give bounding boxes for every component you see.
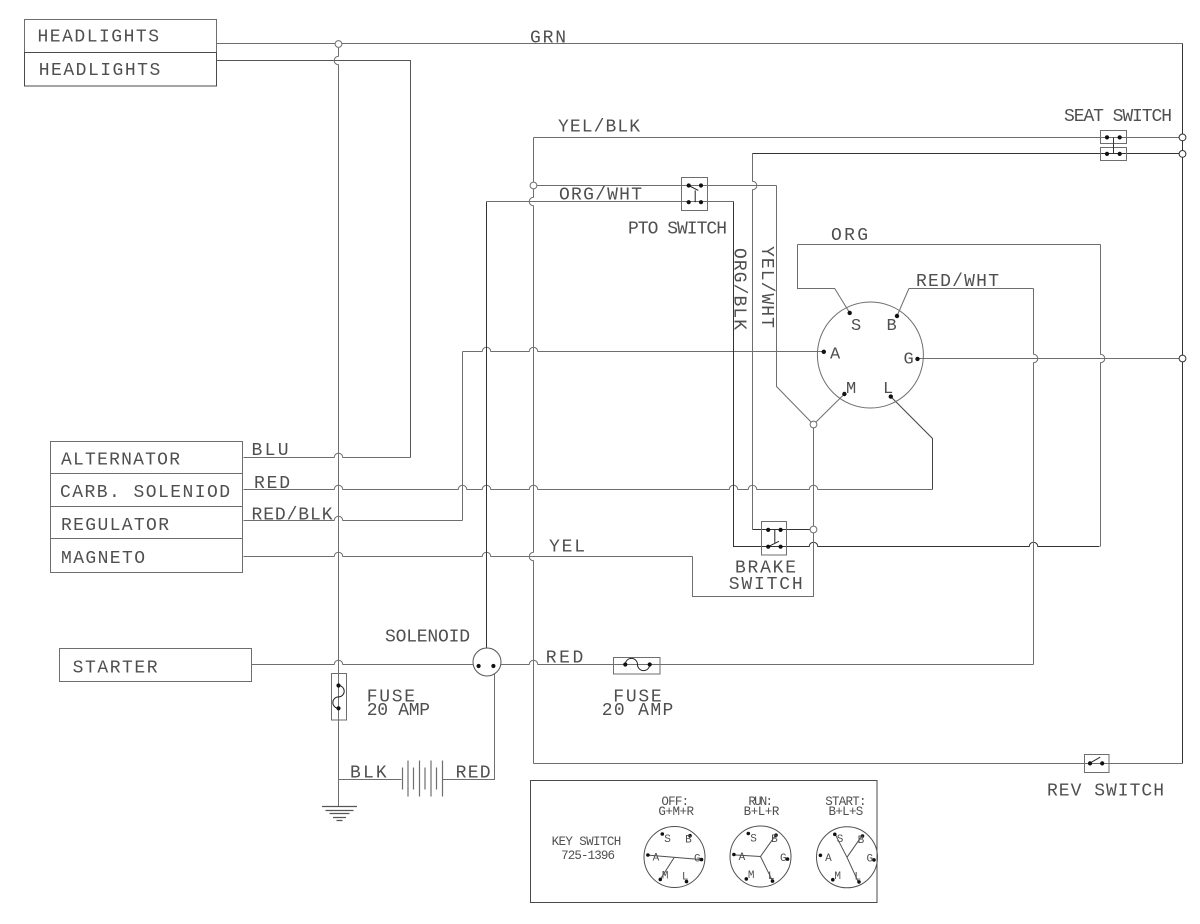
wire ORG/BLK vertical to brake bottom <box>734 202 1100 547</box>
svg-text:M: M <box>834 871 841 883</box>
box ALTERNATOR <box>51 442 243 474</box>
node ORG/WHT junction <box>530 182 537 189</box>
wire RED solenoid to fuse to x1033.5 <box>501 660 1034 664</box>
wire M terminal diagonal <box>814 394 845 425</box>
svg-text:RED: RED <box>546 649 584 669</box>
svg-text:B+L+R: B+L+R <box>744 805 780 819</box>
svg-text:S: S <box>837 834 844 846</box>
box REGULATOR <box>51 507 243 539</box>
wire YEL magneto <box>244 552 693 556</box>
svg-text:BLK: BLK <box>350 764 387 784</box>
wire BLU <box>244 453 411 457</box>
wire ORG/BLK lower <box>487 201 734 203</box>
wire RED/BLK regulator <box>244 516 463 520</box>
svg-text:L: L <box>883 380 893 399</box>
svg-text:SEAT SWITCH: SEAT SWITCH <box>1064 107 1172 127</box>
ground <box>322 807 357 821</box>
wire M junction riser to YEL return <box>693 428 814 597</box>
svg-text:20 AMP: 20 AMP <box>602 701 674 721</box>
boxes left middle <box>51 442 878 903</box>
svg-text:RED: RED <box>456 764 491 784</box>
wire brake top <box>753 529 814 531</box>
wire L terminal diagonal <box>891 397 933 490</box>
fuse F1 vertical <box>332 674 347 721</box>
wire ORG <box>798 244 1101 246</box>
svg-text:M: M <box>846 380 856 399</box>
key switch circle START <box>817 827 878 888</box>
wire RED/WHT vertical x1033.5 <box>1034 289 1038 665</box>
svg-text:PTO SWITCH: PTO SWITCH <box>628 220 727 240</box>
svg-text:L: L <box>768 871 775 883</box>
svg-text:L: L <box>682 871 689 883</box>
svg-text:HEADLIGHTS: HEADLIGHTS <box>39 61 161 81</box>
svg-text:KEY SWITCH: KEY SWITCH <box>552 835 622 849</box>
svg-text:B: B <box>685 835 692 847</box>
svg-text:A: A <box>739 852 746 864</box>
svg-text:G: G <box>867 854 874 866</box>
svg-text:MAGNETO: MAGNETO <box>61 549 145 569</box>
svg-text:L: L <box>854 872 861 884</box>
svg-text:YEL/BLK: YEL/BLK <box>558 118 640 138</box>
wire G terminal <box>918 358 1183 360</box>
wire regulator riser x462.5 <box>462 352 464 521</box>
wire rev riser x533.5 <box>529 138 533 764</box>
wire PTO feed vertical x486.5 <box>486 202 488 649</box>
solenoid <box>473 648 501 676</box>
node seat right upper <box>1179 134 1186 141</box>
node G right <box>1179 355 1186 362</box>
node M junction <box>810 421 817 428</box>
svg-text:S: S <box>851 317 861 336</box>
svg-text:YEL: YEL <box>549 538 585 558</box>
svg-text:S: S <box>750 833 757 845</box>
key switch circle OFF <box>644 827 705 888</box>
svg-text:CARB. SOLENIOD: CARB. SOLENIOD <box>60 483 230 503</box>
battery <box>403 761 443 797</box>
wire right bus vertical <box>1182 44 1184 764</box>
node seat right lower <box>1179 151 1186 158</box>
seat switch <box>1101 131 1127 161</box>
wire ground bus vertical x339 <box>334 48 338 807</box>
svg-text:RED/BLK: RED/BLK <box>252 506 333 526</box>
svg-text:G+M+R: G+M+R <box>658 805 694 819</box>
svg-text:A: A <box>825 853 832 865</box>
box HEADLIGHTS 2 <box>25 53 217 87</box>
svg-text:A: A <box>653 853 660 865</box>
svg-text:G: G <box>904 351 914 370</box>
svg-text:ORG/BLK: ORG/BLK <box>729 248 749 330</box>
box KEY SWITCH <box>531 781 878 903</box>
svg-text:ORG/WHT: ORG/WHT <box>559 186 642 206</box>
svg-text:G: G <box>694 853 701 865</box>
svg-text:B+L+S: B+L+S <box>829 805 864 819</box>
wire ORG to S terminal <box>798 245 850 313</box>
PTO switch <box>682 178 708 211</box>
REV switch <box>1085 755 1110 773</box>
svg-text:HEADLIGHTS: HEADLIGHTS <box>38 28 160 48</box>
wire battery RED riser <box>443 674 495 780</box>
wire ORG/WHT to PTO <box>537 185 777 187</box>
fuse F2 horizontal <box>614 658 661 675</box>
wire RED/WHT <box>897 289 1034 317</box>
svg-text:B: B <box>887 317 897 336</box>
wire A terminal horizontal <box>463 347 824 351</box>
box CARB. SOLENIOD <box>51 474 243 507</box>
wire seat switch lower horizontal <box>753 153 1183 155</box>
wire YEL/BLK <box>534 137 1183 139</box>
svg-text:YEL/WHT: YEL/WHT <box>756 246 776 328</box>
svg-text:725-1396: 725-1396 <box>561 849 615 863</box>
wire GRN net <box>217 43 1183 45</box>
wire battery BLK <box>339 779 402 781</box>
key switch circle RUN <box>730 826 791 887</box>
svg-text:REV SWITCH: REV SWITCH <box>1047 782 1164 802</box>
node brake right junction <box>810 526 817 533</box>
ignition switch U1 <box>817 302 923 408</box>
svg-text:STARTER: STARTER <box>73 659 158 679</box>
wire ORG right vertical x1100.5 <box>1101 245 1105 547</box>
box STARTER <box>60 649 252 682</box>
svg-text:G: G <box>780 853 787 865</box>
wire starter to solenoid <box>252 660 474 664</box>
svg-text:ORG: ORG <box>831 226 868 246</box>
box HEADLIGHTS 1 <box>25 20 217 53</box>
node GRN junction <box>335 41 342 48</box>
svg-text:ALTERNATOR: ALTERNATOR <box>61 451 180 471</box>
svg-text:M: M <box>662 871 669 883</box>
wire YEL/WHT vertical to M junction <box>777 186 814 425</box>
svg-text:GRN: GRN <box>530 29 566 49</box>
wire RED carb solenoid to L <box>244 485 933 489</box>
wire seat switch lower riser x752.5 <box>753 154 757 530</box>
wire headlight2 to alternator <box>217 61 411 458</box>
svg-text:BLU: BLU <box>252 441 289 461</box>
wire REV switch run <box>534 763 1183 765</box>
svg-text:B: B <box>771 834 778 846</box>
svg-text:RED/WHT: RED/WHT <box>916 272 999 292</box>
svg-text:SOLENOID: SOLENOID <box>385 628 470 648</box>
svg-text:B: B <box>858 835 865 847</box>
svg-text:REGULATOR: REGULATOR <box>61 516 169 536</box>
svg-text:M: M <box>748 870 755 882</box>
svg-text:A: A <box>830 346 841 365</box>
svg-text:S: S <box>664 834 671 846</box>
svg-text:20 AMP: 20 AMP <box>367 701 430 721</box>
svg-text:RED: RED <box>254 474 290 494</box>
box MAGNETO <box>51 539 243 573</box>
brake switch <box>762 522 787 556</box>
